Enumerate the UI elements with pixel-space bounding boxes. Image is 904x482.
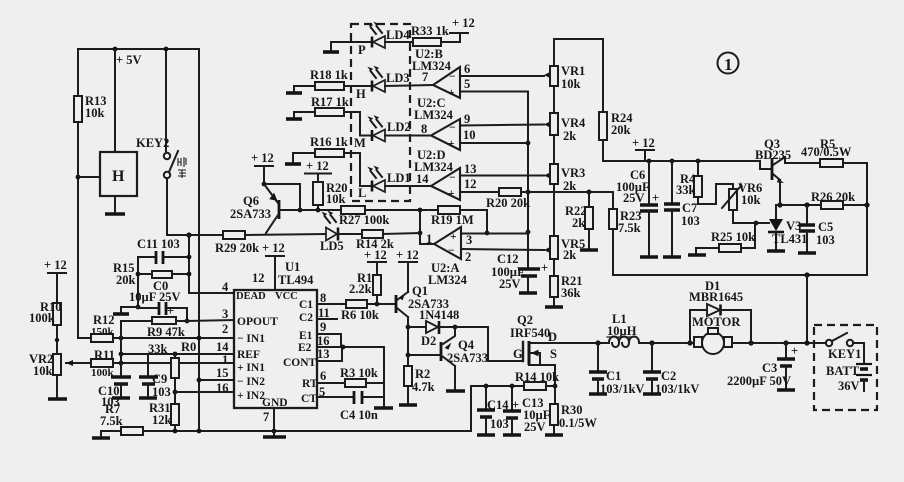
svg-text:VR1: VR1	[561, 64, 585, 78]
svg-text:REF: REF	[237, 349, 260, 361]
svg-text:+: +	[512, 398, 519, 412]
wire +5V right vertical down	[198, 49, 200, 431]
ground R16	[285, 153, 301, 164]
wire +12 rail right	[603, 159, 772, 169]
svg-text:+: +	[448, 138, 455, 150]
transistor Q4 2SA733	[441, 338, 488, 366]
wire source row	[471, 384, 555, 389]
svg-text:11: 11	[318, 306, 330, 320]
svg-text:R25 10k: R25 10k	[711, 230, 755, 244]
svg-text:R29 20k: R29 20k	[215, 241, 259, 255]
svg-text:103/1kV: 103/1kV	[600, 382, 644, 396]
svg-text:+ IN2: + IN2	[237, 390, 265, 402]
svg-text:+: +	[652, 191, 659, 205]
svg-text:+ 5V: + 5V	[116, 53, 142, 67]
svg-text:R26 20k: R26 20k	[811, 190, 855, 204]
resistor R3	[340, 366, 384, 387]
svg-text:L: L	[358, 186, 366, 200]
svg-text:E2: E2	[298, 342, 312, 354]
svg-text:D2: D2	[421, 334, 436, 348]
svg-text:C3: C3	[762, 361, 777, 375]
wire bottom rail	[143, 386, 471, 433]
svg-text:9: 9	[464, 112, 470, 126]
svg-text:3: 3	[222, 307, 228, 321]
svg-text:2k: 2k	[572, 216, 585, 230]
svg-text:V3: V3	[786, 219, 801, 233]
capacitor C5	[798, 205, 835, 253]
op-amp U2:C	[414, 96, 460, 150]
resistor R1	[349, 271, 381, 304]
resistor R31	[149, 401, 179, 431]
svg-text:1N4148: 1N4148	[419, 308, 459, 322]
ground R30	[545, 425, 563, 435]
wire R10 to VR2	[55, 325, 59, 354]
svg-text:H: H	[356, 87, 366, 101]
ground R17	[286, 112, 302, 119]
svg-text:Q6: Q6	[243, 194, 259, 208]
svg-text:150k: 150k	[91, 326, 115, 338]
wire Q1 emitter to +12	[396, 248, 419, 292]
resistor R19	[420, 206, 487, 233]
resistor R13	[74, 94, 107, 122]
svg-text:7.5k: 7.5k	[100, 414, 123, 428]
wire Q4 base	[406, 327, 441, 366]
wire U2:A pin3 input	[461, 233, 528, 235]
svg-text:8: 8	[421, 122, 427, 136]
svg-text:25V: 25V	[499, 277, 521, 291]
svg-text:Q2: Q2	[517, 313, 533, 327]
op-amp U2:D	[414, 148, 460, 200]
svg-text:M: M	[354, 136, 366, 150]
svg-text:36k: 36k	[561, 286, 581, 300]
U1 pin numbers	[216, 271, 330, 424]
svg-text:12: 12	[252, 271, 265, 285]
svg-text:R30: R30	[561, 403, 583, 417]
resistor R23	[609, 192, 642, 235]
svg-text:2: 2	[465, 250, 471, 264]
svg-text:−: −	[449, 122, 456, 134]
svg-text:KEY1: KEY1	[828, 347, 861, 361]
inductor L1	[607, 312, 639, 347]
resistor R24	[599, 111, 633, 161]
svg-text:16: 16	[216, 381, 229, 395]
svg-text:14: 14	[416, 172, 429, 186]
wire R19 to pin3 node	[485, 230, 531, 236]
svg-text:R6 10k: R6 10k	[341, 308, 379, 322]
ground V3	[767, 249, 785, 253]
node +12 above R1	[364, 248, 387, 275]
wire KEY2 down to R29 node	[167, 178, 189, 235]
ground R3/C4	[374, 406, 393, 410]
svg-text:36V: 36V	[838, 379, 860, 393]
svg-text:Q1: Q1	[412, 284, 428, 298]
svg-text:100k: 100k	[29, 311, 55, 325]
capacitor C2	[643, 343, 699, 396]
wire VR6 down to TL431 ref node	[733, 210, 769, 225]
svg-text:VCC: VCC	[275, 291, 298, 302]
wire Q3 emitter down	[779, 180, 781, 205]
resistor R15	[113, 261, 189, 287]
ground R21	[545, 297, 563, 307]
svg-text:LM324: LM324	[414, 108, 454, 122]
wire pin5 CT line	[317, 396, 353, 398]
svg-text:RT: RT	[302, 378, 318, 390]
LED LD2	[354, 115, 431, 150]
transistor Q1 2SA733	[396, 284, 449, 317]
svg-text:U1: U1	[285, 260, 300, 274]
ground R22	[580, 229, 598, 250]
ground under H	[105, 196, 125, 214]
svg-text:TL494: TL494	[278, 273, 314, 287]
svg-text:13: 13	[464, 162, 477, 176]
wire pin2 line	[113, 336, 234, 341]
op-amp U2:A	[426, 227, 472, 287]
wire signal bus x528	[526, 92, 531, 269]
op-amp U2:B	[412, 47, 460, 99]
svg-text:6: 6	[464, 62, 470, 76]
svg-text:10k: 10k	[561, 77, 581, 91]
svg-text:BATT: BATT	[826, 364, 860, 378]
resistor R6	[341, 300, 394, 322]
svg-text:+: +	[448, 188, 455, 200]
U1 pin names right	[283, 299, 318, 405]
node +12 R33	[450, 16, 475, 33]
svg-text:+ 12: + 12	[251, 151, 274, 165]
svg-text:Q4: Q4	[458, 338, 475, 352]
diode D2 1N4148	[408, 308, 459, 348]
svg-text:4.7k: 4.7k	[412, 380, 435, 394]
wire +12 branch over Q6	[264, 184, 302, 212]
svg-text:103: 103	[816, 233, 835, 247]
resistor R21	[550, 259, 583, 300]
+5V rail	[78, 48, 199, 50]
capacitor C0 electrolytic	[129, 279, 187, 321]
svg-text:0.1/5W: 0.1/5W	[559, 416, 597, 430]
node +12 on rail	[632, 136, 655, 161]
svg-text:− IN2: − IN2	[237, 376, 265, 388]
LED indicator dashed box	[351, 24, 410, 201]
svg-text:LM324: LM324	[414, 160, 454, 174]
potentiometer VR4	[550, 86, 586, 143]
resistor R16	[293, 135, 372, 186]
resistor R18	[294, 68, 372, 90]
svg-text:10k: 10k	[85, 106, 105, 120]
svg-text:−: −	[448, 245, 455, 257]
svg-text:+ 12: + 12	[44, 258, 67, 272]
resistor R27	[339, 206, 420, 227]
ground under VR2	[48, 375, 67, 399]
LED LD3	[356, 66, 433, 101]
potentiometer VR5	[550, 184, 585, 262]
capacitor C10	[98, 377, 131, 409]
LED LD1	[358, 166, 431, 200]
ground Q4 collector	[446, 366, 465, 391]
svg-text:+: +	[791, 344, 798, 358]
resistor R14 (10k)	[515, 370, 559, 390]
wire pin8 C1 line	[317, 303, 346, 305]
wire Q3 collector to R5	[785, 157, 820, 163]
svg-text:100k: 100k	[91, 367, 115, 379]
LED LD4	[331, 22, 413, 57]
svg-text:MOTOR: MOTOR	[692, 315, 741, 329]
capacitor C9	[139, 372, 171, 399]
shunt regulator V3 TL431	[768, 205, 807, 250]
wire U1 GND to rail and ground	[263, 408, 286, 437]
battery BATT 36V	[826, 343, 872, 393]
svg-text:6: 6	[320, 369, 326, 383]
svg-text:C7: C7	[682, 201, 697, 215]
svg-text:LD1: LD1	[387, 171, 411, 185]
svg-text:25V: 25V	[623, 191, 645, 205]
hall sensor H	[100, 152, 137, 196]
ground R2	[399, 386, 417, 405]
svg-text:C11 103: C11 103	[137, 237, 180, 251]
wire tie down to R3/C4 node	[383, 347, 385, 407]
svg-text:2k: 2k	[563, 129, 576, 143]
wire R11 row to U1 pin1	[113, 361, 234, 366]
svg-text:LD5: LD5	[320, 239, 344, 253]
resistor R7	[92, 402, 143, 438]
capacitor C3 electrolytic	[727, 343, 798, 390]
svg-text:2200µF 50V: 2200µF 50V	[727, 374, 791, 388]
svg-text:+ 12: + 12	[452, 16, 475, 30]
wire U2:D pin12	[460, 177, 499, 192]
svg-text:R16 1k: R16 1k	[310, 135, 348, 149]
wire R0 to R31 and pin16	[173, 378, 234, 404]
svg-text:+: +	[448, 87, 455, 99]
op-amp U1 TL494 package	[234, 260, 317, 408]
svg-text:R2: R2	[415, 367, 430, 381]
svg-text:12: 12	[464, 177, 477, 191]
wire pin11 stub	[317, 318, 337, 320]
svg-text:C4 10n: C4 10n	[340, 408, 378, 422]
svg-text:9: 9	[320, 320, 326, 334]
capacitor C11	[137, 237, 189, 264]
svg-text:3: 3	[466, 233, 472, 247]
svg-text:10k: 10k	[741, 193, 761, 207]
svg-text:7: 7	[263, 410, 269, 424]
capacitor C7	[663, 161, 700, 257]
resistor R10	[29, 300, 62, 325]
ground R18	[286, 86, 302, 93]
node feedback column	[418, 208, 423, 244]
svg-text:P: P	[358, 43, 366, 57]
wire U2:B pin5	[460, 77, 528, 92]
capacitor C4	[340, 391, 384, 422]
svg-text:LM324: LM324	[428, 273, 468, 287]
svg-text:103: 103	[152, 385, 171, 399]
wire R23 down to bottom return line	[613, 229, 867, 278]
svg-text:8: 8	[320, 291, 326, 305]
resistor R12	[78, 313, 115, 342]
svg-text:R20 20k: R20 20k	[486, 196, 530, 210]
svg-text:− IN1: − IN1	[237, 333, 265, 345]
wire R4 to VR6	[698, 184, 733, 204]
svg-text:TL431: TL431	[772, 232, 807, 246]
resistor R30	[550, 386, 597, 430]
wire node to Q4 emitter	[443, 327, 455, 344]
svg-text:VR3: VR3	[561, 166, 585, 180]
transistor Q3 BD235	[755, 137, 791, 183]
svg-text:10k: 10k	[326, 192, 346, 206]
svg-text:16: 16	[317, 334, 330, 348]
motor M	[692, 315, 741, 354]
svg-text:D: D	[548, 330, 557, 344]
wire Q6 base line	[280, 209, 342, 211]
svg-text:2k: 2k	[563, 179, 576, 193]
capacitor C14	[477, 386, 509, 435]
wire return node to main line	[806, 275, 808, 341]
label brake (CJK)	[178, 157, 186, 178]
ground LD4 left	[323, 42, 339, 52]
node +5V label	[116, 53, 142, 67]
potentiometer VR1	[550, 39, 585, 91]
svg-text:IRF540: IRF540	[510, 326, 550, 340]
node +12 above R20	[305, 159, 331, 182]
svg-text:103: 103	[490, 417, 509, 431]
svg-text:20k: 20k	[611, 123, 631, 137]
potentiometer VR6	[722, 181, 762, 210]
svg-text:R0: R0	[181, 340, 196, 354]
svg-text:R9 47k: R9 47k	[147, 325, 185, 339]
diode D1 MBR1645	[689, 279, 751, 343]
svg-text:20k: 20k	[116, 273, 136, 287]
svg-text:C5: C5	[818, 220, 833, 234]
svg-text:R17 1k: R17 1k	[311, 95, 349, 109]
svg-text:2k: 2k	[563, 248, 576, 262]
svg-text:1: 1	[724, 55, 733, 74]
svg-text:+ 12: + 12	[632, 136, 655, 150]
resistor R14 (2k)	[356, 230, 420, 251]
resistor R25	[696, 223, 755, 254]
svg-text:R18 1k: R18 1k	[310, 68, 348, 82]
svg-text:LD3: LD3	[386, 71, 410, 85]
switch KEY2	[136, 47, 178, 179]
svg-text:10µF 25V: 10µF 25V	[129, 290, 181, 304]
switch KEY1	[826, 333, 862, 361]
svg-text:R14 2k: R14 2k	[356, 237, 394, 251]
svg-text:R19 1M: R19 1M	[431, 213, 474, 227]
wire Q2 source down	[553, 365, 558, 388]
label circled 1	[718, 53, 739, 75]
wire vertical x121	[119, 321, 124, 376]
wire pins 9-16-13 tie	[317, 334, 384, 361]
svg-text:R14 10k: R14 10k	[515, 370, 559, 384]
svg-text:14: 14	[216, 340, 229, 354]
wire main power line	[543, 340, 826, 345]
svg-text:H: H	[112, 168, 125, 185]
svg-text:R33 1k: R33 1k	[411, 24, 449, 38]
svg-text:2.2k: 2.2k	[349, 282, 372, 296]
svg-text:5: 5	[464, 77, 470, 91]
wire U2:A pin2 input to VR5	[461, 247, 550, 253]
ground R25	[688, 253, 706, 257]
svg-text:G: G	[513, 347, 523, 361]
svg-text:7.5k: 7.5k	[618, 221, 641, 235]
transistor Q2 IRF540	[510, 313, 557, 365]
svg-text:+ 12: + 12	[306, 159, 329, 173]
node +12 above U1	[262, 241, 285, 290]
resistor R22	[565, 190, 593, 230]
wire cluster left vertical	[136, 257, 141, 309]
svg-text:+: +	[450, 231, 457, 243]
capacitor C6 electrolytic	[616, 161, 659, 257]
resistor R17	[294, 95, 372, 136]
wire U2:C pin9 to VR4	[460, 112, 550, 128]
svg-text:1: 1	[222, 353, 228, 367]
svg-text:C9: C9	[152, 372, 167, 386]
wire U2:B pin6 to VR1	[460, 62, 550, 78]
svg-text:C2: C2	[661, 369, 676, 383]
wire top right rail	[554, 39, 603, 112]
node junction R13/H	[76, 175, 81, 180]
svg-text:S: S	[550, 347, 557, 361]
node D2 cathode	[453, 325, 458, 330]
svg-text:33k: 33k	[676, 183, 696, 197]
svg-text:103/1kV: 103/1kV	[655, 382, 699, 396]
potentiometer VR2	[29, 352, 91, 378]
LED LD5	[320, 211, 362, 253]
svg-text:+ 12: + 12	[396, 248, 419, 262]
wire pin6 RT line	[317, 382, 345, 384]
svg-text:R11: R11	[94, 348, 115, 362]
svg-text:+: +	[541, 261, 548, 275]
wire Q1 collector down	[406, 317, 411, 329]
svg-text:KEY2: KEY2	[136, 136, 169, 150]
wire H supply	[113, 47, 118, 152]
wire R26 row	[776, 202, 821, 207]
svg-text:CONT: CONT	[283, 357, 317, 369]
svg-text:C12: C12	[497, 252, 519, 266]
wire gate drive	[455, 327, 523, 361]
resistor R29	[189, 231, 326, 255]
potentiometer VR3	[550, 135, 585, 193]
svg-text:10k: 10k	[33, 364, 53, 378]
capacitor C12 electrolytic	[491, 252, 548, 293]
svg-text:OPOUT: OPOUT	[237, 316, 278, 328]
resistor R11	[91, 348, 115, 379]
svg-text:2SA733: 2SA733	[230, 207, 271, 221]
svg-text:25V: 25V	[524, 420, 546, 434]
svg-text:15: 15	[216, 366, 229, 380]
wire to H block	[78, 176, 100, 178]
wire U2:A output	[420, 243, 434, 245]
transistor Q6 2SA733	[230, 184, 279, 233]
node R1/Q1 base	[375, 302, 380, 307]
svg-text:R12: R12	[93, 313, 115, 327]
svg-text:12k: 12k	[152, 413, 172, 427]
battery dashed box	[814, 325, 877, 410]
wire REF line	[121, 352, 234, 376]
resistor R20 (10k)	[313, 181, 348, 212]
svg-text:C1: C1	[606, 369, 621, 383]
resistor R2	[404, 366, 435, 394]
wire left vertical from +5V down	[77, 49, 79, 338]
node +12 left column	[44, 258, 67, 303]
resistor R4	[676, 161, 702, 197]
svg-text:CT: CT	[301, 393, 317, 405]
svg-text:VR4: VR4	[561, 116, 586, 130]
wire U2:D pin13 to VR3	[460, 162, 550, 179]
node R29 line start	[186, 232, 191, 237]
U1 pin names left	[236, 291, 298, 409]
resistor R9	[121, 317, 189, 339]
svg-text:E1: E1	[299, 330, 313, 342]
svg-text:10: 10	[463, 128, 476, 142]
resistor R5	[801, 137, 867, 275]
svg-text:10µH: 10µH	[607, 324, 637, 338]
svg-text:LD4: LD4	[386, 28, 410, 42]
